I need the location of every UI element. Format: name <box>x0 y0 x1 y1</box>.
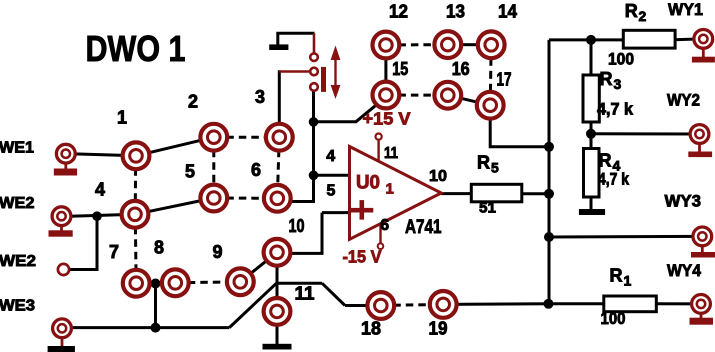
svg-text:17: 17 <box>497 70 512 90</box>
op-amp plus input marker <box>349 200 373 220</box>
socket 13 <box>434 31 461 58</box>
socket 1 <box>123 142 150 169</box>
svg-text:2: 2 <box>639 8 647 24</box>
potentiometer P1 contact top <box>310 53 318 61</box>
svg-text:WE1: WE1 <box>0 139 34 156</box>
svg-text:18: 18 <box>361 318 381 338</box>
svg-text:11: 11 <box>295 284 315 304</box>
terminal WE2 <box>52 207 71 226</box>
wire bus to WY3 <box>549 235 702 239</box>
junction bus R1 branch <box>544 299 554 309</box>
svg-text:U0: U0 <box>356 172 380 193</box>
wire socket 7 to socket 8 <box>136 281 175 284</box>
svg-text:6: 6 <box>251 160 261 180</box>
ground WE3 <box>48 338 75 352</box>
svg-text:4: 4 <box>95 179 105 199</box>
svg-text:14: 14 <box>498 1 517 21</box>
terminal WE2 aux contact <box>58 264 69 275</box>
op-amp pin 11 stem and test point <box>376 134 382 163</box>
socket 12 <box>373 32 400 59</box>
wire bus to R2 <box>549 38 624 41</box>
svg-text:1: 1 <box>386 180 394 197</box>
svg-text:R: R <box>477 153 490 173</box>
socket 15 <box>373 82 400 109</box>
label U0 1 <box>356 172 394 197</box>
ground bar of R4 <box>579 209 605 215</box>
wire socket 10 to pin 5 riser <box>291 213 322 254</box>
wire op-amp pin 5 input <box>322 211 350 214</box>
wire socket 19 to R1 <box>443 302 604 306</box>
terminal WE3 <box>53 319 72 338</box>
wire socket 11 stem <box>276 311 279 344</box>
socket 9 <box>227 268 254 295</box>
svg-text:2: 2 <box>188 92 198 112</box>
socket 16 <box>434 82 461 109</box>
dashed link socket 15 to 16 <box>386 94 448 97</box>
wire diagonal down to socket 18 level <box>322 283 345 305</box>
junction bus WY3 branch <box>544 232 554 242</box>
svg-text:WY4: WY4 <box>667 261 701 280</box>
dashed link socket 2 to 3 <box>214 136 279 139</box>
wire WE2 to socket 4 <box>70 214 135 216</box>
wire WE2 branch down to aux contact <box>69 216 98 269</box>
socket 3 <box>266 124 293 151</box>
wire op-amp pin 4 input <box>314 174 350 177</box>
socket 7 <box>123 270 150 297</box>
wire socket 3 riser <box>278 70 281 137</box>
svg-text:R: R <box>599 151 612 171</box>
label R4 <box>599 151 621 174</box>
svg-text:4,7 k: 4,7 k <box>597 100 634 118</box>
svg-text:10: 10 <box>289 216 305 236</box>
ground WY3 <box>691 246 715 258</box>
svg-text:51: 51 <box>479 200 496 217</box>
dashed link socket 12 to 13 <box>386 43 448 46</box>
potentiometer P1 wiper wire <box>279 70 311 73</box>
wire diagonal WE3 rail to node J <box>229 283 276 327</box>
op-amp U0 triangle <box>350 147 442 240</box>
svg-text:-15 V: -15 V <box>343 247 382 267</box>
svg-text:7: 7 <box>109 242 119 262</box>
junction R3 WY2 node <box>586 129 596 139</box>
terminal WY1 <box>694 30 713 49</box>
resistor R1 body <box>604 296 657 312</box>
wire socket 13 to socket 14 <box>448 43 491 46</box>
svg-text:15: 15 <box>392 59 408 79</box>
junction pin 4 node <box>309 171 319 181</box>
dashed link socket 18 to 19 <box>381 304 443 305</box>
wire WE1 to socket 1 <box>74 154 136 156</box>
resistor R5 body <box>471 184 522 202</box>
junction R2 R3 node <box>586 35 596 45</box>
potentiometer P1 contact middle <box>310 68 318 76</box>
svg-text:3: 3 <box>614 76 622 92</box>
svg-text:DWO 1: DWO 1 <box>86 28 186 69</box>
wire socket 16 to socket 17 <box>448 95 490 105</box>
junction on WE2 wire <box>92 211 102 221</box>
junction on WE3 rail <box>151 323 161 333</box>
socket 18 <box>367 292 394 319</box>
wire socket 17 to right bus <box>490 105 549 147</box>
socket 4 <box>122 201 149 228</box>
svg-text:+15 V: +15 V <box>363 108 411 128</box>
dashed link socket 4 to 7 <box>135 214 136 283</box>
wire socket 12 to socket 15 <box>384 45 387 95</box>
svg-text:3: 3 <box>255 87 265 107</box>
svg-text:R: R <box>600 69 613 89</box>
resistor R2 body <box>623 30 675 48</box>
dashed link socket 3 to 6 <box>277 137 279 198</box>
label R1 <box>610 266 632 289</box>
svg-text:5: 5 <box>491 160 499 176</box>
svg-text:100: 100 <box>608 50 634 68</box>
socket 2 <box>200 124 227 151</box>
wire node J to the right <box>277 282 323 285</box>
socket 17 <box>477 92 504 119</box>
dashed link socket 1 to 4 <box>134 156 138 215</box>
svg-text:19: 19 <box>429 318 448 338</box>
ground WE2 <box>49 226 73 237</box>
svg-text:100: 100 <box>601 310 626 328</box>
potentiometer P1 adjust arrow <box>331 46 341 100</box>
junction bus R5 output <box>544 189 554 199</box>
ground WY4 <box>690 313 714 325</box>
label R2 <box>625 1 647 24</box>
svg-text:WE2: WE2 <box>0 253 36 270</box>
dashed link socket 5 to 6 <box>214 197 277 200</box>
svg-text:11: 11 <box>384 145 398 162</box>
wire into socket 18 <box>345 304 381 307</box>
wire op-amp output to R5 <box>441 192 472 195</box>
svg-text:16: 16 <box>452 59 470 79</box>
resistor R3 body <box>583 75 599 122</box>
svg-text:6: 6 <box>380 217 389 234</box>
resistor R4 body <box>584 149 600 198</box>
svg-text:WE2: WE2 <box>0 195 35 212</box>
dashed link socket 8 to 9 <box>175 282 240 283</box>
svg-text:9: 9 <box>212 242 222 262</box>
junction between sockets 7 and 8 <box>151 279 161 289</box>
svg-text:WE3: WE3 <box>0 297 35 314</box>
label R3 <box>600 69 622 92</box>
socket 5 <box>200 185 227 212</box>
svg-text:4,7 k: 4,7 k <box>598 171 630 189</box>
svg-text:WY3: WY3 <box>665 191 702 210</box>
svg-text:R: R <box>610 266 623 286</box>
wire right vertical bus <box>548 40 551 304</box>
op-amp pin 6 stem and test point <box>378 223 384 249</box>
dashed link socket 14 to 17 <box>490 45 491 105</box>
svg-text:1: 1 <box>624 273 632 289</box>
svg-text:13: 13 <box>446 1 465 21</box>
wire R2 to WY1 <box>674 37 701 41</box>
svg-text:5: 5 <box>185 161 195 181</box>
socket 10 <box>264 239 291 266</box>
wire socket 10 to socket 11 vertical <box>276 252 279 311</box>
svg-text:4: 4 <box>326 148 335 165</box>
terminal WE1 <box>56 144 75 163</box>
ground bar at potentiometer top <box>269 44 288 50</box>
svg-text:8: 8 <box>154 238 164 258</box>
wire WE3 rail <box>70 326 229 329</box>
wire R2 node down to R3 <box>590 40 593 75</box>
svg-text:10: 10 <box>429 168 447 185</box>
label R5 <box>477 153 499 176</box>
svg-text:R: R <box>625 1 638 21</box>
svg-text:A741: A741 <box>405 217 442 238</box>
wire +15V node to socket 15 <box>314 104 378 121</box>
junction bus socket 17 branch <box>544 142 554 152</box>
wire potentiometer top to ground <box>278 33 315 45</box>
svg-text:1: 1 <box>117 108 127 128</box>
wire R1 to WY4 <box>656 302 701 305</box>
wire branch between 7-8 down to WE3 rail <box>154 283 157 328</box>
wire pot bottom contact down to socket 6 branch <box>290 91 314 202</box>
potentiometer P1 contact bottom <box>310 83 318 91</box>
socket 19 <box>430 291 457 318</box>
wire socket 4 to socket 5 <box>135 198 214 214</box>
svg-text:WY1: WY1 <box>668 0 703 19</box>
svg-text:WY2: WY2 <box>667 90 700 109</box>
wire socket 9 to socket 10 <box>240 252 277 281</box>
wire R4 stem to ground <box>590 197 593 210</box>
wire socket 1 to socket 2 <box>136 137 214 156</box>
wire R3 to R4 <box>590 121 593 149</box>
socket 8 <box>162 269 189 296</box>
ground bar of socket 11 <box>263 344 292 350</box>
ground WE1 <box>54 163 77 176</box>
svg-text:12: 12 <box>389 1 408 21</box>
terminal WY2 <box>690 125 709 144</box>
terminal WY4 <box>692 295 711 314</box>
svg-text:5: 5 <box>327 182 336 199</box>
ground WY2 <box>688 143 712 157</box>
junction +15V node <box>309 117 319 127</box>
ground WY1 <box>692 48 715 62</box>
wire R5 to bus <box>521 192 549 195</box>
dashed link socket 2 to 5 <box>212 137 215 198</box>
socket 14 <box>478 31 505 58</box>
socket 11 <box>264 298 291 325</box>
potentiometer P1 red feed wire <box>313 33 316 55</box>
wire R3-R4 node to WY2 <box>591 132 699 135</box>
socket 6 <box>264 185 291 212</box>
potentiometer P1 slider bar <box>321 67 326 92</box>
terminal WY3 <box>693 227 712 246</box>
